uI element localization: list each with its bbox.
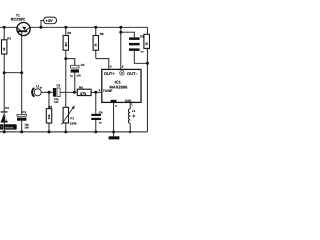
node R3 junction <box>48 91 51 94</box>
svg-text:R5: R5 <box>100 32 104 36</box>
wire right edge vertical (R6 branch) <box>146 27 148 132</box>
svg-text:TUNE: TUNE <box>103 89 113 93</box>
wire C3 to R4 <box>60 91 77 93</box>
node base wire right junction <box>20 71 23 74</box>
resistor R6 <box>144 34 150 48</box>
svg-text:10k: 10k <box>47 114 51 119</box>
svg-text:4k7: 4k7 <box>64 42 68 47</box>
wire top rail right segment to top-right corner <box>30 26 147 28</box>
wire top rail left segment <box>0 26 17 28</box>
node C5/R6 junction <box>146 62 149 65</box>
svg-text:T: T <box>1 126 3 130</box>
resistor R1 <box>2 27 12 72</box>
svg-text:R2: R2 <box>67 31 71 35</box>
node base wire left junction <box>3 71 6 74</box>
svg-text:R3: R3 <box>48 105 52 109</box>
svg-text:400mW: 400mW <box>5 126 14 129</box>
svg-text:100k: 100k <box>70 121 77 125</box>
node C2/R4 junction <box>73 91 76 94</box>
svg-text:BC238C: BC238C <box>11 18 26 22</box>
svg-text:47k: 47k <box>80 91 87 96</box>
wire ground rail <box>0 131 147 133</box>
svg-text:P1: P1 <box>70 116 74 120</box>
svg-text:16V: 16V <box>54 101 59 104</box>
svg-text:D1: D1 <box>5 106 9 110</box>
wire R2 to C2 <box>66 59 75 66</box>
inductor L1 on pin 1 <box>128 102 135 133</box>
svg-text:1μ: 1μ <box>70 75 73 78</box>
svg-text:C3: C3 <box>56 84 60 88</box>
node R2 bottom junction <box>64 57 67 60</box>
node P1 ground junction <box>64 130 67 133</box>
svg-text:1k: 1k <box>145 42 149 46</box>
wire R5 to pin 4 <box>96 59 109 70</box>
svg-text:C4: C4 <box>99 110 103 114</box>
supply +4V <box>40 17 57 29</box>
wire base node horizontal <box>4 72 22 74</box>
node TUNE/C4 junction <box>94 91 97 94</box>
svg-text:16V: 16V <box>24 126 29 129</box>
svg-text:OUT+: OUT+ <box>104 71 115 76</box>
wire audio line <box>41 91 53 93</box>
pin 2 GND tab <box>111 100 118 134</box>
capacitor C4 <box>91 92 103 132</box>
potentiometer P1 <box>61 59 77 132</box>
capacitor C1 <box>17 73 29 134</box>
svg-text:L1: L1 <box>132 109 136 113</box>
audio source Uaf <box>32 84 42 97</box>
svg-text:af: af <box>40 86 42 89</box>
resistor R4 47k <box>77 85 102 96</box>
diode D1 zener <box>0 73 17 134</box>
capacitor C2 <box>70 63 85 92</box>
svg-text:10V: 10V <box>76 75 81 78</box>
wire pin 5 OUT- to rail <box>119 26 122 29</box>
ground <box>109 132 120 140</box>
resistor R5 <box>93 26 104 59</box>
svg-text:1k: 1k <box>94 43 98 47</box>
node C4 ground junction <box>94 130 97 133</box>
svg-text:R1: R1 <box>7 37 11 41</box>
resistor R3 <box>46 92 52 132</box>
svg-text:1k: 1k <box>2 47 6 51</box>
capacitor C5 branch <box>119 31 147 64</box>
IC IC1 MAX2606 <box>102 69 141 103</box>
resistor R2 <box>63 26 71 59</box>
svg-text:+4V: +4V <box>45 18 53 23</box>
capacitor C3 <box>53 84 61 104</box>
svg-text:C2: C2 <box>81 63 85 67</box>
svg-text:1n: 1n <box>99 122 102 125</box>
node rail/R1 junction <box>3 26 6 29</box>
svg-text:1n: 1n <box>140 51 143 54</box>
transistor T1 BC238C <box>11 14 30 73</box>
svg-text:OUT–: OUT– <box>127 71 138 76</box>
node R3 ground junction <box>48 130 51 133</box>
